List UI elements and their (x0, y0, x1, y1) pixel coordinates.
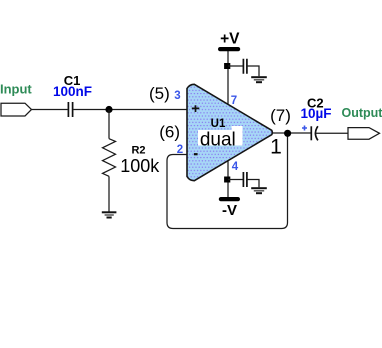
svg-text:(5): (5) (149, 84, 170, 103)
svg-text:U1: U1 (211, 118, 226, 130)
svg-text:-V: -V (222, 202, 237, 219)
svg-text:dual: dual (200, 129, 236, 150)
svg-text:(7): (7) (270, 106, 291, 125)
svg-text:R2: R2 (131, 144, 145, 156)
svg-text:10µF: 10µF (300, 106, 331, 121)
svg-text:7: 7 (231, 95, 237, 107)
svg-text:1: 1 (270, 136, 282, 159)
svg-text:+V: +V (220, 30, 240, 47)
svg-text:4: 4 (232, 161, 239, 173)
svg-text:100k: 100k (120, 156, 160, 176)
svg-text:(6): (6) (159, 123, 180, 142)
svg-text:Output: Output (342, 106, 382, 120)
svg-text:3: 3 (174, 90, 180, 102)
svg-text:100nF: 100nF (53, 84, 92, 99)
svg-text:2: 2 (177, 144, 183, 156)
svg-text:Input: Input (0, 82, 32, 97)
